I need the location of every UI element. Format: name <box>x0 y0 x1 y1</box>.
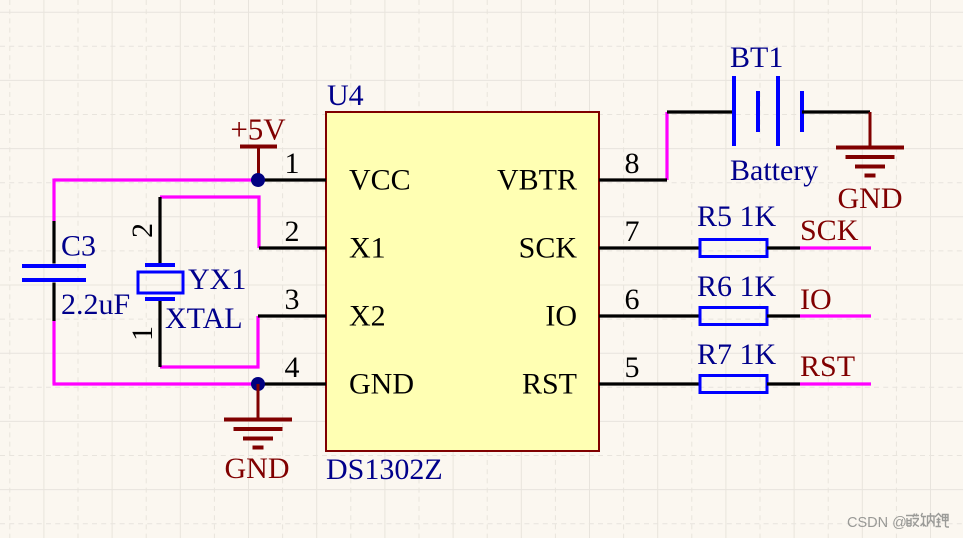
crystal YX1 body rectangle <box>138 272 183 293</box>
resistor R6 body <box>700 308 767 325</box>
svg-text:CSDN @: CSDN @ <box>847 515 907 531</box>
svg-text:+5V: +5V <box>230 112 286 147</box>
watermark glyph 3 <box>935 514 949 528</box>
resistor R5 body <box>700 240 767 257</box>
ground symbol bar 2 <box>846 155 895 159</box>
wire from YX1 pin 1 to U4 pin X2 <box>160 316 258 367</box>
svg-text:R5 1K: R5 1K <box>697 200 777 233</box>
ground symbol at U4 pin 4 : stub <box>257 384 260 418</box>
svg-text:Battery: Battery <box>730 154 818 187</box>
svg-text:X1: X1 <box>349 232 386 265</box>
resistor R7 left lead <box>667 382 700 385</box>
svg-text:3: 3 <box>285 283 300 316</box>
power symbol +5V stub <box>257 146 260 180</box>
battery BT1 short plate 1 <box>756 91 760 132</box>
wire left rail lower segment from C3 pin 2 <box>52 321 55 384</box>
U4 pin 6 lead <box>599 314 667 317</box>
svg-text:1: 1 <box>285 147 300 180</box>
capacitor C3 pin 2 lead <box>52 283 55 322</box>
ground symbol bar 1 <box>224 418 292 422</box>
svg-text:R7 1K: R7 1K <box>697 338 777 371</box>
svg-text:2: 2 <box>126 223 159 238</box>
svg-text:GND: GND <box>838 182 903 215</box>
resistor R7 right lead <box>767 382 800 385</box>
battery BT1 lead right <box>802 110 870 113</box>
svg-text:U4: U4 <box>327 79 364 112</box>
battery BT1 tall plate 1 <box>732 76 736 146</box>
svg-text:7: 7 <box>625 215 640 248</box>
junction node at U4 pin 4 <box>251 377 265 391</box>
U4 pin 8 lead <box>599 178 667 181</box>
U4 pin 3 lead <box>258 314 326 317</box>
svg-text:SCK: SCK <box>519 232 578 265</box>
svg-text:XTAL: XTAL <box>165 302 243 335</box>
battery BT1 short plate 2 <box>800 91 804 132</box>
capacitor C3 pin 1 lead <box>52 221 55 264</box>
svg-text:YX1: YX1 <box>188 263 246 296</box>
crystal YX1 top plate <box>145 263 175 267</box>
svg-text:R6 1K: R6 1K <box>697 270 777 303</box>
svg-text:6: 6 <box>625 283 640 316</box>
svg-text:X2: X2 <box>349 300 386 333</box>
svg-text:GND: GND <box>225 452 290 485</box>
svg-text:C3: C3 <box>61 230 96 263</box>
battery BT1 lead left <box>667 110 734 113</box>
svg-text:2: 2 <box>285 215 300 248</box>
svg-text:VBTR: VBTR <box>497 164 577 197</box>
resistor R6 left lead <box>667 314 700 317</box>
ground symbol at battery : stub <box>869 112 872 146</box>
U4 pin 5 lead <box>599 382 667 385</box>
wire left rail upper segment to C3 pin 1 <box>52 179 55 222</box>
svg-text:SCK: SCK <box>800 214 859 247</box>
resistor R5 right lead <box>767 246 800 249</box>
ground symbol bar 4 <box>865 174 876 178</box>
ground symbol bar 1 <box>836 146 904 150</box>
battery BT1 tall plate 2 <box>776 76 780 146</box>
watermark glyph 1 <box>906 514 919 527</box>
crystal YX1 bottom plate <box>145 297 175 301</box>
power symbol +5V bar <box>240 145 277 149</box>
wire net SCK <box>800 246 871 249</box>
svg-text:8: 8 <box>625 147 640 180</box>
U4 pin 2 lead <box>259 246 326 249</box>
svg-text:5: 5 <box>625 351 640 384</box>
crystal YX1 pin 2 lead <box>158 197 161 263</box>
svg-text:RST: RST <box>800 350 855 383</box>
U4 pin 4 lead <box>258 382 326 385</box>
wire net RST <box>800 382 871 385</box>
watermark glyph 2 <box>921 513 935 527</box>
svg-text:2.2uF: 2.2uF <box>61 288 130 321</box>
wire riser from U4 pin VBTR to battery <box>665 112 668 180</box>
capacitor C3 top plate <box>22 264 86 268</box>
svg-text:1: 1 <box>126 326 159 341</box>
ground symbol bar 2 <box>234 427 283 431</box>
ground symbol bar 3 <box>243 437 273 441</box>
wire net VCC from junction to left rail <box>54 178 258 181</box>
wire bottom rail to GND junction <box>53 382 259 385</box>
svg-text:RST: RST <box>522 368 577 401</box>
ground symbol bar 4 <box>253 446 264 450</box>
wire from YX1 pin 2 to U4 pin X1 <box>160 197 259 248</box>
svg-text:IO: IO <box>545 300 577 333</box>
crystal YX1 pin 1 lead <box>158 301 161 367</box>
svg-text:BT1: BT1 <box>730 41 783 74</box>
junction node at U4 pin 1 <box>251 173 265 187</box>
ground symbol bar 3 <box>855 165 885 169</box>
svg-text:IO: IO <box>800 283 832 316</box>
capacitor C3 bottom plate <box>22 278 86 282</box>
resistor R7 body <box>700 376 767 393</box>
U4 pin 1 lead <box>258 178 326 181</box>
svg-text:4: 4 <box>285 351 300 384</box>
U4 pin 7 lead <box>599 246 667 249</box>
wire net IO <box>800 314 871 317</box>
resistor R5 left lead <box>667 246 700 249</box>
svg-text:VCC: VCC <box>349 164 411 197</box>
op-amp U1 body : IC U4 DS1302Z body <box>326 112 599 451</box>
svg-text:GND: GND <box>349 368 414 401</box>
svg-text:DS1302Z: DS1302Z <box>326 453 443 486</box>
resistor R6 right lead <box>767 314 800 317</box>
